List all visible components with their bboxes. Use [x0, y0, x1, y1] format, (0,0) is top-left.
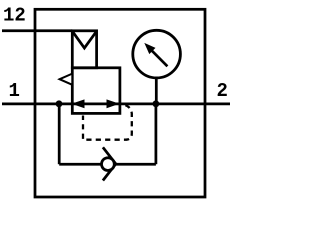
flow arrowhead left: [72, 99, 85, 108]
junction node right: [153, 100, 160, 107]
wire bottom run left: [59, 163, 101, 166]
pilot sensing dashed line: [83, 105, 132, 140]
gauge stem wire: [155, 78, 158, 104]
pilot spring box: [72, 31, 96, 68]
flow arrowhead right: [107, 99, 120, 108]
junction node left: [56, 100, 63, 107]
svg-text:12: 12: [3, 4, 26, 26]
main flow line 1-2: [2, 103, 230, 106]
relief arrow (open, left): [60, 74, 73, 85]
spring chevron: [72, 31, 96, 48]
gauge needle shaft: [152, 50, 168, 66]
svg-text:1: 1: [9, 80, 20, 102]
regulator valve body: [72, 68, 120, 114]
wire left branch down: [58, 104, 61, 164]
check valve seat: [103, 147, 116, 180]
check valve ball: [102, 158, 115, 171]
pilot line 12: [2, 29, 72, 32]
gauge needle arrowhead: [144, 43, 155, 54]
svg-text:2: 2: [217, 80, 228, 102]
wire bottom run right: [116, 163, 156, 166]
pressure gauge circle: [133, 30, 181, 78]
wire right branch up: [155, 104, 158, 164]
enclosure frame: [35, 9, 205, 197]
